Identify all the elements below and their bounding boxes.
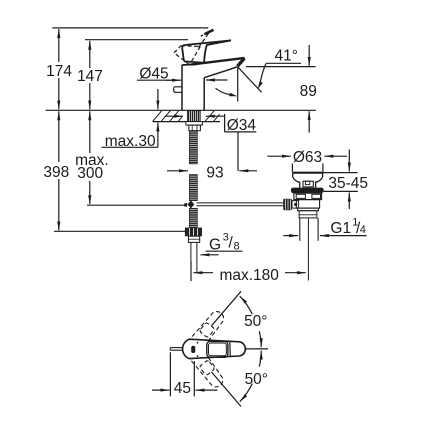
body sides — [181, 65, 183, 110]
cartridge ring — [184, 61, 204, 62]
svg-text:35-45: 35-45 — [328, 175, 368, 192]
dashed rotated handles — [179, 307, 227, 390]
top ref line (174 level) — [52, 27, 208, 29]
svg-text:89: 89 — [300, 83, 317, 100]
dimension 147 — [89, 41, 91, 68]
svg-text:4: 4 — [360, 224, 366, 236]
41 deg underline ref — [266, 62, 301, 64]
shank in hole — [187, 111, 200, 122]
dimension 89 — [308, 45, 310, 66]
washer — [186, 122, 203, 126]
small arc arrowheads for 41deg annotation — [258, 81, 263, 89]
locknut — [189, 125, 201, 131]
dimension 398 — [58, 111, 60, 140]
svg-text:3: 3 — [223, 232, 229, 244]
dimension Ø34 — [165, 115, 184, 117]
spout top — [191, 58, 245, 65]
junction diamond — [188, 200, 195, 208]
dimension G3/8 — [206, 250, 243, 252]
svg-text:50°: 50° — [244, 313, 267, 330]
pop-up rod (double line) — [197, 202, 284, 204]
flange top — [292, 172, 323, 174]
svg-text:50°: 50° — [245, 371, 268, 388]
dashed raised lever — [174, 34, 209, 65]
svg-text:45: 45 — [174, 380, 191, 397]
svg-text:93: 93 — [206, 165, 223, 182]
window double outline — [207, 341, 228, 357]
counter bottom line — [153, 121, 187, 123]
dimension Ø63 — [268, 155, 291, 157]
counter top line — [46, 109, 316, 111]
lower arc with arrows — [240, 384, 253, 402]
svg-text:G1: G1 — [330, 220, 351, 237]
spout underside — [204, 67, 237, 78]
second ref line (147 level) — [85, 39, 188, 41]
aerator face — [237, 58, 244, 66]
dimension G1 1/4 — [283, 235, 298, 237]
dimension max.180 — [193, 272, 213, 274]
axis line — [245, 348, 269, 350]
aerator level ref (89) — [246, 66, 316, 68]
dimension 45 — [169, 352, 171, 396]
svg-text:Ø34: Ø34 — [227, 117, 257, 134]
svg-text:147: 147 — [77, 68, 103, 85]
svg-text:max.180: max.180 — [219, 267, 279, 284]
svg-text:Ø45: Ø45 — [139, 66, 168, 83]
left tab — [174, 87, 182, 93]
dimension Ø45 — [137, 79, 171, 81]
svg-text:max.30: max.30 — [105, 133, 156, 150]
svg-text:300: 300 — [77, 165, 103, 182]
boss tab — [303, 181, 313, 187]
svg-text:G: G — [209, 236, 221, 253]
pivot knob — [283, 199, 292, 211]
threaded rod segments — [189, 131, 197, 164]
max300 ref line to junction — [87, 204, 186, 206]
small pill — [191, 346, 195, 353]
398 bottom ref — [54, 230, 186, 232]
svg-text:174: 174 — [46, 63, 72, 80]
upper arc with arrows — [240, 296, 253, 314]
lever blade — [182, 40, 231, 62]
bottom steps — [298, 208, 319, 211]
svg-text:8: 8 — [234, 240, 240, 252]
svg-text:Ø63: Ø63 — [293, 149, 322, 166]
dimension max.30 leader — [157, 89, 159, 109]
50deg leader lines — [212, 291, 242, 326]
seal band — [291, 188, 324, 194]
raised lever tip (solid) — [204, 30, 213, 35]
dimension max300 — [89, 111, 91, 135]
dimension 35-45 — [323, 172, 358, 174]
vertical from spout tip — [237, 67, 239, 102]
stub left — [170, 347, 182, 349]
svg-text:1: 1 — [352, 217, 358, 229]
svg-text:398: 398 — [43, 164, 69, 181]
41deg arc right (from underline to jet line) — [260, 64, 266, 83]
small arc with arrow to vertical — [216, 88, 230, 94]
41 deg jet line — [238, 67, 262, 93]
svg-text:41°: 41° — [274, 48, 297, 65]
hose fitting — [185, 228, 202, 237]
mid body — [296, 200, 319, 209]
slot band — [294, 193, 322, 199]
dimension 93 — [167, 170, 188, 172]
supply hose — [190, 242, 192, 261]
tailpipe — [299, 218, 301, 241]
solid handle capsule — [183, 339, 246, 358]
